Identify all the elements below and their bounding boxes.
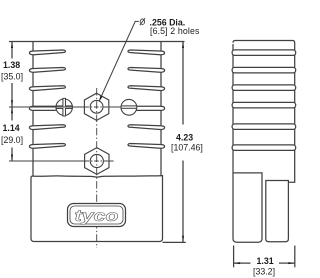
screw right slot [121, 105, 136, 107]
screw left circle [56, 99, 72, 115]
left fin 4 [29, 106, 57, 110]
hole upper .256 dia [90, 100, 103, 113]
side view right lower block [266, 181, 289, 242]
left fin 3 [29, 86, 65, 91]
screw left phillips cross [56, 98, 72, 116]
horizontal centerline through screws and upper hole [9, 106, 84, 108]
tyco logo outer border [68, 204, 126, 227]
right fin 1 [128, 50, 165, 55]
lower hole centerline [9, 160, 85, 162]
front body lower housing [31, 176, 163, 242]
side rib band 6 [232, 145, 296, 151]
left fin 5 [29, 125, 65, 130]
front view top edge with extension lines [9, 41, 185, 43]
dim 4.23 bottom extension [163, 241, 186, 243]
svg-text:4.23: 4.23 [176, 133, 193, 143]
right fin 5 [128, 125, 165, 130]
right fin 3 [128, 86, 165, 91]
side view left body outline [233, 44, 262, 242]
leader line to hole [99, 21, 139, 101]
svg-text:[107.46]: [107.46] [171, 142, 203, 152]
tyco logo inner border [70, 206, 123, 224]
side rib band 2 [232, 67, 296, 73]
vertical centerline front view [96, 88, 98, 248]
dim 1.31 line [234, 262, 251, 264]
screw right circle [121, 99, 137, 115]
svg-text:1.38: 1.38 [3, 60, 20, 70]
leader arrowhead [99, 96, 102, 101]
tyco logo word [75, 207, 119, 225]
dim 1.31 extension lines [233, 246, 235, 268]
svg-text:[33.2]: [33.2] [253, 266, 275, 276]
right fin 6 [128, 144, 165, 149]
svg-text:1.31: 1.31 [257, 256, 274, 266]
side rib band 5 [232, 124, 296, 129]
side view outline top and right [233, 41, 295, 183]
side rib band 1 [232, 50, 296, 56]
side rib band 4 [232, 102, 296, 108]
front view ribbed shell left edge [32, 42, 34, 177]
right fin 2 [128, 68, 165, 73]
svg-text:1.14: 1.14 [3, 123, 20, 133]
svg-text:[35.0]: [35.0] [1, 72, 23, 82]
hex boss upper [84, 93, 108, 120]
hex boss lower [85, 148, 109, 175]
left fin 2 [29, 68, 65, 73]
left fin 6 [29, 144, 65, 149]
svg-text:tyco: tyco [75, 207, 119, 225]
front view ribbed shell right edge [160, 42, 162, 177]
dim 4.23 line [182, 42, 184, 125]
left fin 1 [29, 50, 65, 55]
svg-text:[29.0]: [29.0] [1, 135, 23, 145]
side rib band 3 [232, 85, 296, 91]
svg-text:[6.5] 2 holes: [6.5] 2 holes [150, 26, 200, 36]
dim 1.14 line [11, 107, 13, 121]
hole lower .256 dia [90, 154, 103, 167]
diameter symbol [140, 19, 144, 24]
dim 1.38 line [11, 42, 13, 59]
right fin 4 [134, 106, 165, 110]
